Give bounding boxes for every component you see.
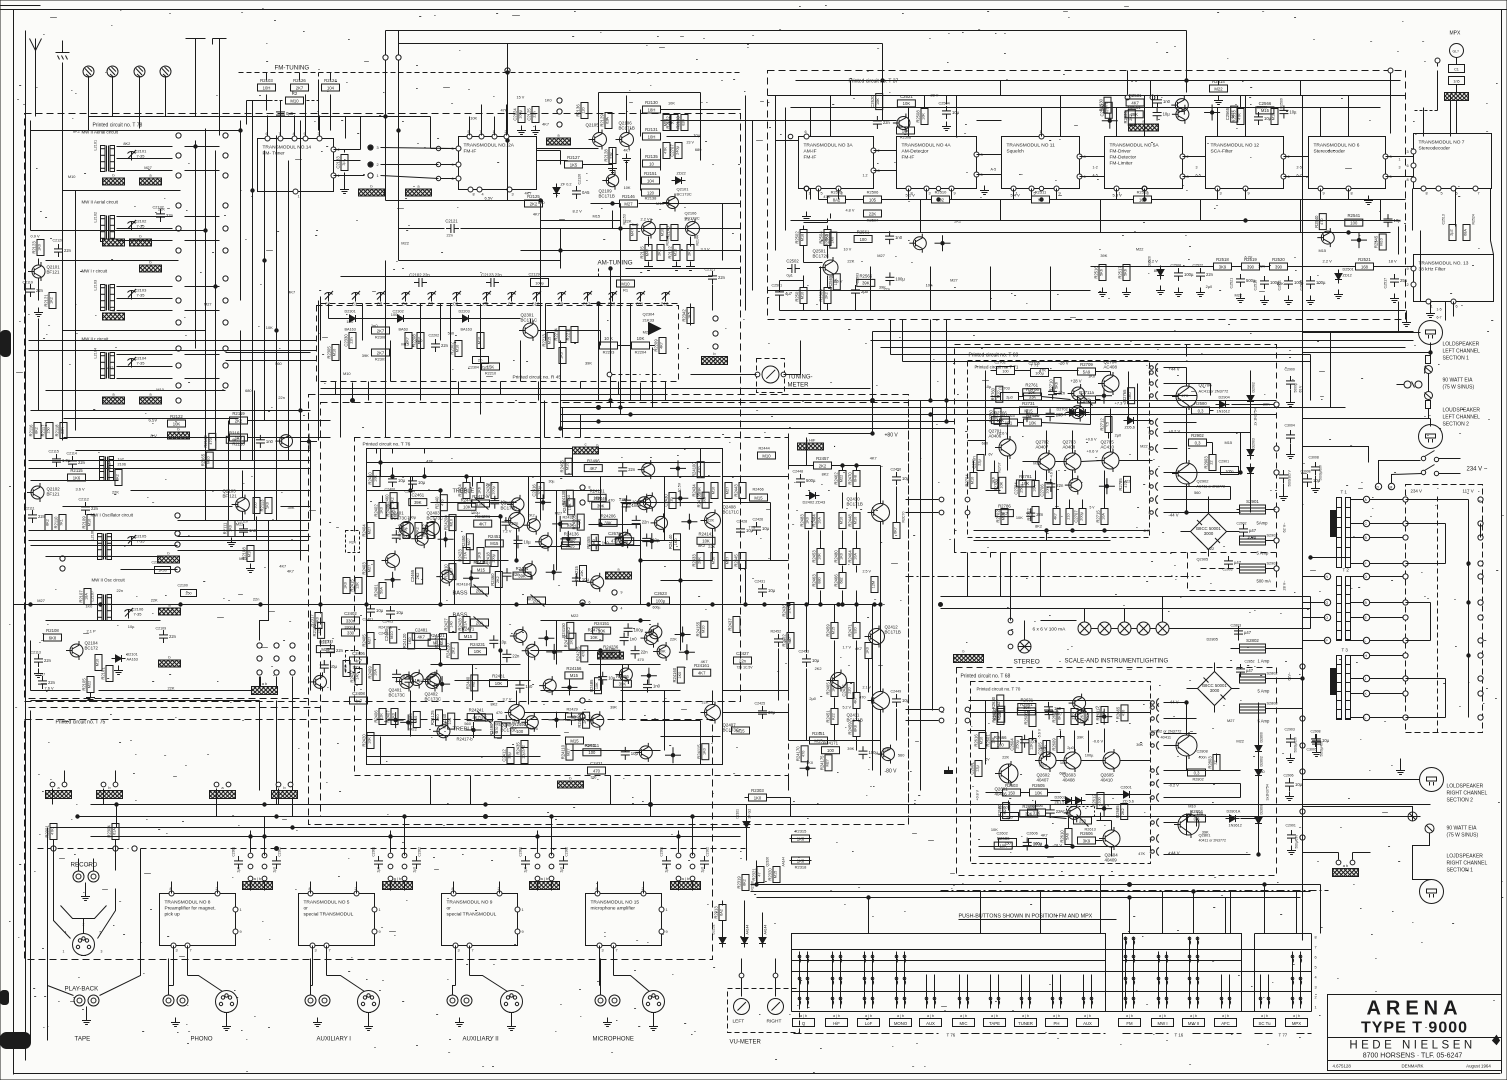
wire lamps bbox=[1008, 618, 1310, 649]
capacitor C2418 bbox=[486, 551, 499, 567]
transistor Q2703 bbox=[1060, 440, 1081, 474]
wire mid buses bbox=[871, 341, 1414, 362]
transistor Q2105 bbox=[586, 123, 607, 150]
wire drop1 bbox=[386, 73, 621, 415]
transformer primary terminal Q bbox=[1303, 599, 1331, 605]
resistor R2402 1K0 bbox=[374, 503, 387, 519]
svg-text:L: L bbox=[1365, 716, 1367, 720]
wire U5 bbox=[311, 882, 405, 995]
resistor R2560 bbox=[824, 232, 836, 248]
svg-text:M10: M10 bbox=[971, 477, 975, 484]
center outer dashed boundary bbox=[309, 395, 909, 825]
svg-text:0.9 V: 0.9 V bbox=[31, 234, 40, 239]
capacitor C2125 22n bbox=[527, 107, 540, 123]
svg-text:2µ0: 2µ0 bbox=[665, 867, 669, 873]
svg-text:R2211: R2211 bbox=[566, 328, 571, 341]
svg-text:4K7: 4K7 bbox=[1001, 511, 1009, 516]
transistor Q83 bbox=[1065, 476, 1082, 495]
voltage 7.6V bbox=[45, 686, 54, 691]
pushbutton frame right bbox=[1255, 934, 1312, 1012]
wire t37 bottom bus bbox=[781, 189, 1406, 311]
svg-text:4K7: 4K7 bbox=[527, 596, 534, 601]
value label bbox=[985, 384, 992, 389]
svg-text:R2731: R2731 bbox=[1022, 401, 1035, 406]
capacitor C237 bbox=[631, 646, 649, 659]
capacitor C82 bbox=[1046, 479, 1064, 492]
voltage +43v bbox=[1099, 804, 1111, 808]
resistor R2414 2K2 bbox=[415, 523, 422, 539]
svg-text:R2661: R2661 bbox=[1020, 702, 1033, 707]
svg-text:C2903: C2903 bbox=[1285, 728, 1295, 732]
svg-text:C2302: C2302 bbox=[418, 847, 422, 857]
value label bbox=[491, 702, 498, 707]
wire t68 mesh bbox=[986, 721, 1112, 857]
wire left mid extra bbox=[311, 611, 331, 691]
svg-text:Printed circuit no. T 70: Printed circuit no. T 70 bbox=[977, 687, 1021, 692]
svg-text:10K: 10K bbox=[903, 101, 911, 106]
svg-text:S2808: S2808 bbox=[1267, 702, 1278, 706]
capacitor C2448 500u bbox=[793, 470, 816, 488]
value label bbox=[542, 121, 549, 126]
svg-text:R2464: R2464 bbox=[848, 550, 853, 563]
variable capacitor C1 bbox=[352, 291, 361, 307]
connector hatch MIC bbox=[671, 876, 701, 890]
value label bbox=[1100, 253, 1107, 258]
resistor R2134 47K bbox=[663, 143, 670, 159]
value label bbox=[278, 395, 285, 400]
svg-text:R2133: R2133 bbox=[676, 116, 681, 129]
resistor R24211 bbox=[472, 560, 490, 573]
wire pb bbox=[48, 828, 141, 996]
svg-text:40408: 40408 bbox=[1063, 778, 1076, 783]
label Q2905 bbox=[1197, 556, 1242, 572]
transistor Q2405 bbox=[382, 551, 400, 571]
svg-text:10µ: 10µ bbox=[902, 476, 910, 481]
svg-text:240µ: 240µ bbox=[676, 145, 680, 154]
voltage selector wiring bbox=[1406, 500, 1481, 718]
MW II osc circuit label bbox=[92, 578, 126, 583]
label rs2 bbox=[1447, 784, 1488, 804]
value label bbox=[545, 97, 553, 102]
value label bbox=[1088, 374, 1096, 379]
svg-text:4K7: 4K7 bbox=[590, 466, 598, 471]
svg-text:C2902: C2902 bbox=[1237, 522, 1247, 526]
record jack L bbox=[73, 871, 84, 882]
svg-text:9: 9 bbox=[379, 930, 381, 934]
voltage 502v bbox=[1169, 783, 1180, 788]
svg-text:D2802: D2802 bbox=[1260, 756, 1264, 766]
voltage +08v bbox=[976, 789, 980, 800]
module U12 bbox=[1206, 137, 1290, 196]
svg-text:C2202: C2202 bbox=[429, 334, 440, 338]
tape head symbol bbox=[61, 906, 107, 929]
svg-text:FM-IF: FM-IF bbox=[902, 155, 915, 161]
coil L2104 bbox=[94, 348, 115, 379]
voltage selector terminal L bbox=[1403, 600, 1408, 605]
resistor R2407 bbox=[386, 709, 399, 725]
svg-text:C2402: C2402 bbox=[344, 611, 357, 616]
wire stub R2764 bbox=[1096, 388, 1112, 404]
svg-text:5: 5 bbox=[820, 192, 822, 196]
svg-text:8: 8 bbox=[472, 193, 474, 197]
svg-text:22n: 22n bbox=[278, 395, 285, 400]
svg-text:R24160: R24160 bbox=[672, 667, 677, 682]
transistor Q113 bbox=[635, 743, 652, 762]
connector hatch mpx bbox=[1445, 93, 1469, 101]
MPX connector bbox=[1450, 44, 1464, 58]
wire am drop links bbox=[341, 304, 546, 382]
svg-text:R2121: R2121 bbox=[44, 294, 49, 307]
svg-text:M27: M27 bbox=[204, 302, 212, 307]
svg-text:8K2: 8K2 bbox=[1035, 523, 1042, 528]
svg-text:2µ0: 2µ0 bbox=[560, 867, 564, 873]
junctions tuner bbox=[194, 129, 302, 412]
svg-text:M27: M27 bbox=[726, 487, 730, 494]
wire stub R2449 bbox=[438, 531, 454, 547]
transistor Q2604 bbox=[1099, 827, 1120, 863]
capacitor C2408 bbox=[350, 691, 368, 704]
svg-text:C2504: C2504 bbox=[939, 102, 950, 106]
connector pin 5 T68 bbox=[1150, 730, 1160, 738]
svg-text:22K: 22K bbox=[112, 490, 119, 495]
svg-text:8K2: 8K2 bbox=[116, 474, 120, 481]
capacitor C left U15 bbox=[660, 847, 672, 873]
wire bbox=[31, 641, 261, 691]
svg-text:39K: 39K bbox=[610, 705, 617, 710]
wire fm flow bbox=[386, 139, 621, 261]
svg-text:C2114: C2114 bbox=[67, 452, 77, 456]
svg-text:104: 104 bbox=[647, 178, 655, 183]
svg-text:22n: 22n bbox=[1056, 809, 1064, 814]
svg-text:ARENA: ARENA bbox=[1366, 998, 1462, 1020]
svg-text:680: 680 bbox=[695, 147, 702, 152]
connector label MW1 bbox=[103, 173, 125, 186]
label T71b bbox=[1031, 363, 1040, 368]
svg-text:1n0: 1n0 bbox=[1056, 412, 1064, 417]
wire route i bbox=[1310, 597, 1312, 629]
svg-text:T 77: T 77 bbox=[1279, 1033, 1288, 1038]
connector label a 2N bbox=[406, 184, 432, 197]
value label bbox=[275, 361, 282, 366]
svg-text:C2120: C2120 bbox=[53, 239, 64, 243]
wire down to pb bbox=[0, 0, 2, 2]
pin numbers col bbox=[1315, 936, 1317, 1010]
wire bottom cross bbox=[0, 0, 2, 2]
node 80v bbox=[809, 332, 899, 439]
svg-text:R2315: R2315 bbox=[795, 829, 808, 834]
svg-text:600µ: 600µ bbox=[653, 606, 661, 610]
svg-text:LOLDSPEAKER: LOLDSPEAKER bbox=[1447, 784, 1484, 790]
connector label MW12 bbox=[140, 392, 162, 405]
resistor R2518 3K9 bbox=[1214, 257, 1232, 270]
connector label FM1 bbox=[140, 260, 162, 273]
fuse S2808 5Amp bbox=[1240, 702, 1278, 724]
svg-text:M22: M22 bbox=[571, 613, 579, 618]
wire pb right col bbox=[1312, 885, 1321, 1009]
connector pin 2 T68 bbox=[1150, 848, 1160, 856]
svg-text:R2304: R2304 bbox=[107, 825, 112, 838]
resistor R24130 bbox=[561, 490, 574, 506]
svg-text:22K: 22K bbox=[883, 747, 890, 752]
diode D2102 bbox=[712, 924, 727, 947]
svg-text:10K: 10K bbox=[568, 539, 576, 544]
svg-text:a b: a b bbox=[1343, 863, 1349, 868]
svg-text:40407: 40407 bbox=[1037, 778, 1050, 783]
svg-text:R24121: R24121 bbox=[430, 633, 446, 638]
capacitor C67 bbox=[885, 272, 905, 285]
svg-text:2.1 P: 2.1 P bbox=[87, 629, 96, 634]
wire t68 mesh2 bbox=[968, 731, 1151, 857]
capacitor C2508 bbox=[1171, 264, 1194, 282]
svg-text:7: 7 bbox=[1477, 192, 1479, 196]
wire t69 out wiring bbox=[1164, 384, 1251, 500]
svg-text:J: J bbox=[1365, 677, 1367, 681]
svg-text:10µ: 10µ bbox=[524, 539, 532, 544]
svg-text:39K: 39K bbox=[604, 521, 612, 526]
svg-text:100µ: 100µ bbox=[519, 109, 523, 118]
svg-text:LEFT: LEFT bbox=[733, 1019, 745, 1025]
FM-TUNING label bbox=[275, 65, 310, 72]
wire stub R24204 bbox=[552, 516, 568, 532]
svg-text:M15: M15 bbox=[464, 634, 473, 639]
diode D2808 bbox=[1255, 804, 1264, 827]
capacitor C2406 4n7 bbox=[350, 651, 368, 670]
capacitor C2403 10u bbox=[385, 474, 406, 492]
resistor R2125 2K2 bbox=[525, 194, 543, 207]
lamp LP2 bbox=[1078, 622, 1091, 635]
svg-text:234 V: 234 V bbox=[1411, 489, 1423, 494]
svg-text:AC411or 2N3772: AC411or 2N3772 bbox=[1199, 389, 1229, 394]
wire t37 bottom bbox=[1091, 266, 1414, 268]
wire stub R2784 bbox=[1099, 478, 1115, 494]
svg-text:R24235: R24235 bbox=[575, 646, 580, 661]
value label bbox=[1115, 433, 1122, 438]
svg-text:a | b: a | b bbox=[897, 1014, 904, 1018]
svg-text:M: M bbox=[1390, 486, 1393, 490]
resistor R2486 bbox=[613, 674, 631, 687]
capacitor C67 bbox=[1023, 409, 1041, 422]
svg-text:200µ: 200µ bbox=[1080, 511, 1084, 520]
transformer primary terminal N bbox=[1303, 573, 1331, 579]
resistor R2521 168 bbox=[1356, 257, 1374, 270]
svg-text:TRANSMODUL NO 4A: TRANSMODUL NO 4A bbox=[902, 143, 952, 149]
svg-text:R2605: R2605 bbox=[1032, 783, 1045, 788]
resistor R2470 6H8 bbox=[848, 471, 861, 487]
wire tone out links bbox=[723, 477, 789, 713]
resistor R2122 10K bbox=[168, 414, 186, 427]
lamp fuse right bbox=[1408, 812, 1434, 833]
resistor R2472 820 bbox=[782, 633, 795, 649]
svg-text:10µ: 10µ bbox=[812, 658, 820, 663]
resistor R24155 bbox=[695, 621, 707, 637]
voltage 6.2V bbox=[1149, 259, 1159, 264]
svg-text:M15: M15 bbox=[774, 871, 778, 878]
dipole antenna symbol bbox=[186, 39, 227, 49]
wire lamp bus bbox=[941, 597, 1311, 609]
resistor R2665 bbox=[1116, 705, 1128, 721]
svg-text:+0.6 V: +0.6 V bbox=[1086, 438, 1098, 442]
value label bbox=[883, 287, 890, 292]
wire stub R2474 bbox=[538, 630, 554, 646]
bracket T77 bbox=[1255, 1033, 1312, 1038]
svg-text:10K: 10K bbox=[595, 682, 599, 689]
value label bbox=[822, 472, 829, 477]
resistor R2441 bbox=[458, 497, 476, 510]
resistor R2114 8K2 bbox=[108, 460, 123, 485]
svg-text:R2686: R2686 bbox=[997, 836, 1010, 841]
svg-text:9: 9 bbox=[522, 930, 524, 934]
node grid fm bbox=[257, 643, 295, 675]
svg-text:BASS: BASS bbox=[453, 613, 468, 619]
svg-text:60 V: 60 V bbox=[1299, 385, 1303, 393]
svg-text:2.2 V: 2.2 V bbox=[685, 217, 694, 222]
resistor M10b bbox=[660, 225, 667, 241]
svg-text:1K0: 1K0 bbox=[436, 714, 440, 721]
svg-text:7: 7 bbox=[1315, 946, 1317, 950]
voltage 62v~ b bbox=[1288, 672, 1292, 681]
capacitor C72 bbox=[489, 635, 507, 648]
svg-text:C2560: C2560 bbox=[1100, 103, 1105, 116]
svg-text:R24206: R24206 bbox=[601, 513, 617, 518]
svg-text:M10: M10 bbox=[239, 556, 247, 561]
wire bbox=[36, 63, 63, 117]
value label bbox=[1277, 281, 1284, 286]
terminal D bbox=[1375, 461, 1420, 490]
svg-text:1K0: 1K0 bbox=[830, 237, 834, 244]
wire t68 bridge bbox=[1187, 627, 1305, 713]
svg-text:Stereodecoder: Stereodecoder bbox=[1419, 146, 1451, 152]
svg-text:D2203: D2203 bbox=[459, 310, 470, 314]
voltage selector terminal R bbox=[1478, 653, 1483, 658]
module U7 bbox=[1406, 134, 1491, 196]
svg-text:4K7: 4K7 bbox=[1041, 833, 1048, 838]
svg-text:C2707: C2707 bbox=[670, 144, 675, 157]
svg-text:100µ: 100µ bbox=[492, 485, 496, 494]
svg-text:10µ: 10µ bbox=[398, 478, 406, 483]
voltage 3.6V bbox=[76, 487, 85, 492]
transistor Q213 bbox=[519, 561, 536, 580]
svg-text:3.6 V: 3.6 V bbox=[76, 487, 85, 492]
svg-text:M27: M27 bbox=[144, 165, 152, 170]
resistor R2760 bbox=[990, 386, 1002, 402]
svg-text:470: 470 bbox=[637, 657, 644, 662]
wire tuner horizontals bbox=[31, 131, 311, 507]
svg-text:R2420: R2420 bbox=[362, 734, 367, 747]
svg-text:1: 1 bbox=[1399, 158, 1401, 162]
svg-text:R24155: R24155 bbox=[695, 621, 700, 636]
svg-text:R2423: R2423 bbox=[458, 549, 463, 562]
wire sub13 bbox=[1426, 302, 1454, 320]
capacitor C42 bbox=[490, 496, 508, 509]
wire t75 grid drops bbox=[251, 817, 693, 853]
svg-text:39K: 39K bbox=[1136, 742, 1143, 747]
svg-text:22n: 22n bbox=[64, 248, 72, 253]
transformer secondary terminal B bbox=[1351, 599, 1406, 605]
svg-text:C2601: C2601 bbox=[970, 762, 975, 775]
value label bbox=[73, 128, 80, 133]
wire coil links2 bbox=[185, 147, 220, 379]
resistor R2211 bbox=[566, 327, 579, 343]
loudspeaker left section1 bbox=[1419, 321, 1443, 345]
wire am2 bbox=[341, 276, 681, 278]
svg-text:R2101: R2101 bbox=[101, 667, 106, 680]
resistor R2510 102 bbox=[932, 190, 950, 204]
value label bbox=[659, 649, 666, 654]
svg-text:MW II Aerial circuit: MW II Aerial circuit bbox=[82, 200, 119, 205]
svg-text:10K: 10K bbox=[997, 418, 1005, 423]
variable capacitor C16 bbox=[661, 291, 670, 307]
resistor R2465 1K2 bbox=[826, 681, 839, 697]
wire outstage5 bbox=[789, 487, 897, 776]
svg-text:7K1: 7K1 bbox=[60, 519, 64, 526]
svg-text:234 V ~: 234 V ~ bbox=[1467, 467, 1488, 473]
svg-text:4µ7: 4µ7 bbox=[785, 291, 793, 296]
svg-text:R2609: R2609 bbox=[1052, 738, 1057, 751]
svg-text:5K6: 5K6 bbox=[1055, 382, 1059, 389]
pushbutton frame left bbox=[792, 934, 1106, 1012]
svg-text:C2521: C2521 bbox=[1230, 278, 1234, 289]
resistor R24140 bbox=[668, 534, 681, 550]
capacitor C2401 10u bbox=[363, 604, 384, 622]
wire t37 drops bbox=[811, 96, 1451, 137]
svg-text:R2666: R2666 bbox=[994, 735, 1007, 740]
bracket T16 bbox=[1123, 1033, 1242, 1038]
junction extras bbox=[263, 71, 612, 829]
wire t76 h bot bbox=[367, 621, 721, 757]
label 3x1N bbox=[1266, 784, 1270, 800]
printed circuit T70 label bbox=[977, 687, 1021, 692]
wire U9 bbox=[453, 882, 552, 995]
svg-text:18 V: 18 V bbox=[1389, 259, 1398, 264]
svg-text:500 mA: 500 mA bbox=[1257, 579, 1272, 584]
node mpx top bbox=[1125, 71, 1155, 108]
capacitor C2428 bbox=[736, 520, 755, 538]
value label bbox=[982, 441, 989, 446]
transistor Q2406b bbox=[501, 501, 525, 532]
wire t69c bbox=[1018, 421, 1153, 439]
junctions buses mid bbox=[559, 399, 948, 430]
capacitor C62 bbox=[256, 435, 274, 448]
svg-text:6-5: 6-5 bbox=[1196, 174, 1201, 178]
resistor C2560 bbox=[1100, 102, 1112, 118]
svg-text:0,3: 0,3 bbox=[1198, 408, 1204, 413]
capacitor C87 bbox=[643, 680, 661, 693]
resistor R2137 M68 bbox=[663, 115, 670, 131]
resistor R24171 bbox=[822, 741, 840, 754]
trimmer C2106b bbox=[125, 607, 145, 619]
resistor R2501 M10 bbox=[795, 288, 808, 304]
svg-text:R2521: R2521 bbox=[1358, 257, 1371, 262]
svg-text:M10: M10 bbox=[96, 659, 100, 666]
capacitor C62 bbox=[885, 231, 903, 244]
svg-text:C2602: C2602 bbox=[997, 832, 1008, 836]
ground bbox=[227, 538, 255, 573]
svg-text:5000µ/65V: 5000µ/65V bbox=[1294, 736, 1298, 752]
resistor R2423 27A bbox=[458, 548, 471, 564]
resistor R2780 bbox=[993, 477, 1005, 493]
svg-text:22n: 22n bbox=[511, 521, 519, 526]
resistor R2463 880 bbox=[812, 573, 825, 589]
voltage -28v bbox=[1059, 361, 1069, 366]
svg-text:PUSH-BUTTONS SHOWN IN POSIT: PUSH-BUTTONS SHOWN IN POSITION FM AND MP… bbox=[959, 914, 1093, 920]
svg-text:28 V~: 28 V~ bbox=[1283, 580, 1287, 591]
svg-text:22n: 22n bbox=[169, 634, 177, 639]
resistor R2609 bbox=[1052, 737, 1065, 753]
resistor R2461 bbox=[513, 566, 531, 579]
resistor R24231 bbox=[469, 642, 487, 655]
svg-text:R2403: R2403 bbox=[362, 562, 367, 575]
svg-text:330: 330 bbox=[347, 630, 355, 635]
